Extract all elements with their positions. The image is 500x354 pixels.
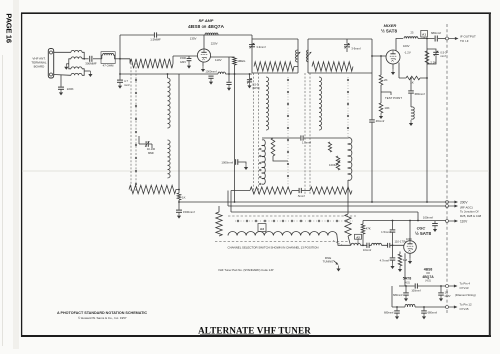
wire V3 cathode right (399, 63, 427, 79)
svg-text:100mmf: 100mmf (423, 216, 433, 220)
wire plate to cap (418, 38, 434, 40)
wire V1 right (211, 57, 235, 74)
label 5AT8 fil (403, 277, 412, 285)
terminal RF AGC (446, 205, 459, 208)
resistor R4 100K (336, 156, 340, 170)
wire mixer B+ drop (426, 39, 428, 203)
wire R1 down (234, 65, 236, 74)
svg-text:TUNING: TUNING (323, 260, 334, 264)
wire cap to feedthru (438, 38, 446, 40)
alignment point A2 box (355, 234, 362, 245)
tube V2 oscillator (404, 241, 417, 254)
wire V3 plate riser (396, 39, 403, 51)
svg-text:4.7mmf: 4.7mmf (380, 258, 390, 262)
switch wafer lines S2 (254, 73, 259, 195)
capacitor C17 100mmf (432, 221, 438, 226)
node screen bus (234, 201, 236, 203)
svg-text:100mmf: 100mmf (411, 288, 421, 292)
svg-text:To Pin 4: To Pin 4 (460, 281, 471, 285)
ground C17 (433, 226, 437, 232)
coil L21 cathode choke (411, 107, 414, 119)
node c23 (405, 285, 407, 287)
svg-text:680mmf: 680mmf (428, 311, 438, 315)
svg-text:Of V13: Of V13 (460, 286, 469, 290)
svg-text:mmf: mmf (124, 83, 130, 87)
capacitor C20 680mmf bypass (408, 78, 414, 107)
svg-text:TO I-F: TO I-F (460, 39, 469, 43)
resistor R3 osc trim (328, 142, 331, 152)
wire balun right top (82, 52, 84, 59)
svg-text:220K: 220K (67, 87, 74, 91)
tube V3 mixer (386, 50, 400, 64)
svg-text:-1.2V: -1.2V (404, 50, 411, 54)
frame right border (489, 13, 491, 337)
capacitor C27 series (388, 243, 390, 248)
coil L2 47 OHM box (101, 52, 115, 64)
svg-text:GMV: GMV (445, 294, 451, 298)
capacitor C25 680mmf fil2 (394, 307, 400, 313)
wire ant shunt drop (60, 75, 62, 87)
wire section3 box (308, 39, 372, 73)
node bus crossings (371, 201, 428, 221)
capacitor C4b rail bypass (226, 74, 231, 85)
node mixer out (426, 38, 428, 40)
ground C24 (439, 295, 443, 301)
wire balun mid stub (66, 63, 69, 65)
switch contact line S2b (287, 77, 289, 186)
coil L6 strip winding upper (168, 78, 171, 128)
ground C16 (390, 263, 394, 269)
node c20 (410, 77, 412, 79)
label VHF ANT TERMINAL BOARD (31, 57, 47, 69)
wire ant top (54, 51, 71, 53)
capacitor C10 1.5mmf (301, 135, 303, 140)
wire 110V bus (363, 220, 446, 222)
svg-text:10-160: 10-160 (147, 147, 156, 151)
resistor R1 1MEG (229, 57, 236, 65)
alignment point A1 box (421, 30, 428, 38)
resistor R9 2.2K (425, 51, 429, 64)
balun coil L1d (71, 73, 82, 75)
svg-text:1.5MMF: 1.5MMF (150, 38, 161, 42)
wire V1 plate riser (203, 35, 205, 49)
svg-text:47K: 47K (366, 227, 371, 231)
svg-text:10mmf: 10mmf (363, 248, 371, 252)
coil L13 strip winding (319, 77, 322, 130)
svg-text:OSC: OSC (417, 226, 426, 231)
wire top line (120, 34, 252, 36)
svg-text:½ 5AT8: ½ 5AT8 (415, 230, 431, 236)
ground C13 (244, 164, 248, 170)
capacitor C26 680mmf fil3 (421, 307, 427, 313)
wire section2 box (252, 35, 298, 73)
svg-text:GMV: GMV (180, 60, 186, 64)
ground C23 (404, 295, 408, 301)
page edge line (2, 55, 4, 346)
label 4BS8 or 4BQ7A fil (422, 267, 434, 282)
frame bottom border (21, 335, 491, 337)
ground C12 (177, 213, 181, 219)
svg-text:1MEG: 1MEG (237, 59, 246, 63)
wire input left vertical (119, 35, 121, 74)
svg-text:3-9mmf: 3-9mmf (351, 46, 360, 50)
capacitor C11 5mmf (292, 188, 310, 193)
wire AGC bus (228, 191, 446, 207)
coil L18 osc grid a (351, 243, 361, 245)
node osc grid (392, 244, 394, 246)
terminal IF output (446, 37, 459, 40)
coil L5 antenna zigzag (120, 59, 173, 69)
label 0.5-3 mmf c19 (440, 51, 447, 59)
wire V2 plate riser (409, 221, 411, 241)
wire bottom rail (120, 73, 252, 75)
svg-text:½ 5AT8: ½ 5AT8 (381, 28, 397, 34)
switch contact row (235, 220, 353, 222)
balun coil L1b (71, 57, 82, 59)
wire filament row1 (399, 285, 446, 287)
svg-text:680mmf: 680mmf (393, 293, 403, 297)
node L6 rail (167, 73, 169, 75)
svg-text:4BQ7A: 4BQ7A (422, 275, 434, 279)
svg-text:ALTERNATE VHF TUNER: ALTERNATE VHF TUNER (198, 325, 311, 335)
svg-text:220V: 220V (211, 42, 218, 46)
coil L14 osc winding (348, 138, 352, 181)
capacitor C2 220K (58, 87, 64, 89)
label RF AGC lines (460, 205, 481, 217)
wire L2 out (115, 58, 120, 60)
wire L5 to grid (172, 56, 174, 64)
node rail-249 (249, 73, 251, 75)
ground fine tuning (336, 266, 340, 272)
coil L3 plate choke (205, 33, 218, 35)
capacitor C3 1.5MMF (154, 32, 156, 37)
svg-text:© Howard W. Sams & Co., Inc. 1: © Howard W. Sams & Co., Inc. 1957 (78, 316, 127, 320)
capacitor C22 100mmf (415, 283, 417, 288)
balun coil L1a (71, 50, 82, 52)
node mixer grid junction (371, 55, 373, 57)
svg-text:PAGE 16: PAGE 16 (4, 13, 13, 42)
svg-text:110V: 110V (215, 58, 222, 62)
svg-text:1500mmf: 1500mmf (183, 210, 195, 214)
svg-text:MMF: MMF (148, 151, 154, 155)
svg-text:[4,5]: [4,5] (426, 280, 431, 283)
node c25 (396, 306, 398, 308)
switch contact line S3b (347, 77, 349, 138)
svg-text:1500: 1500 (180, 56, 186, 60)
svg-text:0.5-3: 0.5-3 (440, 51, 447, 55)
svg-text:RF AMP: RF AMP (199, 18, 214, 23)
wire V3 cathode stub (392, 64, 394, 69)
coil L2 winding (103, 53, 114, 55)
capacitor C13 1000mmf bypass (236, 159, 246, 165)
resistor R2 8.2K (271, 138, 288, 161)
ground V2 (408, 258, 412, 264)
wire filament row2 (392, 306, 446, 308)
svg-text:1000mmf: 1000mmf (205, 70, 216, 74)
label IF OUTPUT (460, 35, 476, 44)
frame left border (21, 13, 23, 337)
node rail-229 (228, 73, 230, 75)
svg-text:IF OUTPUT: IF OUTPUT (460, 35, 476, 39)
wire 200V bus (179, 201, 446, 203)
ground C26 (422, 313, 426, 319)
capacitor C19 0.5-3 trimmer (427, 49, 439, 64)
svg-text:1000mmf: 1000mmf (221, 160, 233, 164)
terminal fil row1 (446, 285, 458, 288)
capacitor C9 3-9mmf trimmer (344, 39, 350, 52)
node input junction (119, 58, 121, 60)
svg-text:TEST POINT: TEST POINT (385, 96, 402, 100)
resistor R5 1K (177, 74, 181, 202)
node r10 grid (380, 55, 382, 57)
node row 47K (362, 244, 364, 246)
capacitor C6 4.7mmf (117, 74, 123, 82)
svg-text:A PHOTOFACT STANDARD NOTATION: A PHOTOFACT STANDARD NOTATION SCHEMATIC (57, 311, 147, 315)
capacitor C21 .36mmf injection (369, 56, 375, 202)
switch box top dashed (228, 215, 356, 217)
ground V3 (391, 69, 395, 75)
wire osc plate bus (231, 191, 418, 221)
svg-text:A2: A2 (356, 235, 360, 239)
coil L16 osc zigzag B (310, 187, 352, 194)
ground V1 cathode (201, 66, 205, 72)
coil L10b tapped osc coil (260, 140, 266, 185)
capacitor C4 1000MMF (208, 76, 213, 78)
coil L10 strip winding (266, 77, 269, 130)
label To Pin 4 Of V13 (460, 281, 471, 289)
wire test point tap (381, 92, 391, 95)
svg-text:R25, R28 & C48: R25, R28 & C48 (460, 214, 481, 218)
capacitor C4a grid bypass (187, 56, 192, 63)
svg-text:300MMF: 300MMF (85, 61, 97, 65)
svg-text:2.2K: 2.2K (430, 60, 436, 64)
svg-text:Of V15: Of V15 (460, 307, 469, 311)
switch contacts S1 (135, 79, 137, 185)
capacitor C24 GMV (438, 286, 444, 295)
ground C4b (227, 85, 231, 91)
shield dashed boundary (446, 24, 448, 315)
tube V1 RF amplifier (197, 49, 210, 62)
ground C2 (59, 89, 63, 95)
coil L4 rail choke (218, 72, 226, 74)
resistor R12 1K (406, 76, 420, 80)
coil L5b converter zigzag (129, 185, 179, 193)
svg-text:680mmf: 680mmf (415, 92, 425, 96)
ground C5 (247, 82, 251, 88)
label To Pin 12 Of V15 (460, 302, 472, 310)
wire L2 internal (101, 55, 115, 59)
ground L21 (409, 120, 413, 126)
label FINE TUNING (323, 256, 334, 264)
svg-text:1.5mmf: 1.5mmf (302, 140, 311, 144)
capacitor C16 4.7mmf (390, 245, 396, 263)
capacitor C15 1.5mmf feedback (390, 221, 396, 246)
wire osc tank top (262, 137, 348, 139)
svg-text:100V: 100V (403, 44, 410, 48)
svg-text:4BS8 OR 4BQ7A: 4BS8 OR 4BQ7A (188, 24, 225, 30)
node c26 (423, 306, 425, 308)
svg-text:5AT8: 5AT8 (403, 277, 412, 281)
ground C6 (118, 83, 122, 89)
page margin shade (13, 0, 19, 349)
resistor R8 1M (398, 252, 402, 267)
coil L8 plate zigzag (254, 62, 298, 71)
label 10-160 MMF (147, 147, 156, 155)
balun coil L1c (71, 67, 82, 69)
node rail-input (119, 73, 121, 75)
label 0.5-3 NPO (252, 82, 259, 89)
label 1M GMV (445, 291, 451, 298)
wire balun left bracket (69, 59, 71, 69)
trimmer fine tuning C7 (139, 141, 152, 147)
ground R11 (379, 113, 383, 119)
terminal 200V (446, 201, 459, 204)
label photofact note (57, 311, 147, 320)
wire screen B+ drop (234, 74, 236, 202)
capacitor C5 0.5-3 trimmer (247, 74, 252, 84)
capacitor C23 680mmf fil (403, 286, 409, 295)
capacitor C8 3-9mmf trimmer (249, 43, 255, 49)
wire V2 cathode (409, 253, 411, 258)
switch box bottom dashed (215, 240, 348, 242)
wire balun gnd stub (84, 70, 90, 72)
svg-text:.5mmf: .5mmf (297, 194, 305, 198)
terminal fil row2 (446, 306, 458, 309)
wire V1 grid (173, 55, 197, 57)
coil L20 mixer plate (404, 37, 418, 39)
coil L15 osc zigzag A (250, 187, 292, 194)
svg-text:110V: 110V (460, 219, 468, 223)
coil L9 coupling out (295, 50, 300, 62)
coil L19 osc grid b (372, 243, 382, 245)
resistor R6 osc series (216, 206, 222, 236)
terminal board TB1 (48, 49, 53, 79)
svg-text:135V: 135V (190, 37, 197, 41)
svg-text:To Pin 12: To Pin 12 (460, 302, 472, 306)
node r5 bus (178, 201, 180, 203)
node balun out (83, 58, 85, 60)
wire balun right bottom (82, 69, 84, 76)
capacitor C18 680mmf (435, 36, 437, 42)
svg-text:680mmf: 680mmf (384, 311, 394, 315)
wire zigA left (231, 190, 250, 192)
switch wafer lines S1 (131, 63, 136, 192)
coil L22 filament choke (405, 304, 415, 307)
svg-text:47 OHM: 47 OHM (103, 64, 114, 68)
coil L7 strip winding lower (168, 140, 171, 178)
svg-text:MIXER: MIXER (384, 23, 397, 28)
svg-text:(Filament String): (Filament String) (455, 293, 476, 297)
wire osc grid row (361, 244, 405, 246)
label 4.7 mmf (124, 79, 130, 87)
resistor R11 10K (379, 103, 383, 113)
wire mixer grid (372, 55, 386, 57)
wire trimmer drop (139, 136, 152, 148)
ground C4a (187, 63, 191, 69)
wire balun out (82, 58, 89, 60)
wire filament link (391, 286, 393, 307)
coil L11 coupling in (306, 50, 311, 62)
frame top border (21, 12, 491, 14)
wire fine tuning arrow (334, 261, 339, 265)
node rail-R1 (234, 73, 236, 75)
resistor R10 2K (379, 56, 383, 103)
ground C25 (395, 313, 399, 319)
svg-text:10K: 10K (384, 106, 389, 110)
svg-text:mmf: mmf (440, 54, 445, 58)
svg-text:VHF Tuner Part No. (STANDARD): VHF Tuner Part No. (STANDARD) Code 1JP (218, 268, 274, 272)
fold line (22, 170, 489, 172)
wire heater riser (404, 253, 406, 286)
wire ant bottom (54, 74, 71, 77)
capacitor C1 300MMF (90, 56, 92, 62)
wire L6 top (167, 74, 169, 78)
capacitor C12 1500mmf (176, 202, 182, 212)
coil L17 osc strip (228, 232, 351, 246)
svg-text:1K: 1K (182, 195, 186, 199)
svg-text:A3: A3 (260, 227, 264, 231)
ground R8 (398, 266, 402, 272)
svg-text:100V: 100V (406, 237, 412, 241)
svg-text:4BS8: 4BS8 (424, 267, 433, 271)
svg-text:2K: 2K (384, 78, 388, 82)
title ALTERNATE VHF TUNER (198, 325, 311, 335)
node r12 bus (426, 77, 428, 79)
wire dashed link strip (333, 241, 343, 246)
svg-text:680mmf: 680mmf (431, 31, 441, 35)
svg-text:BOARD: BOARD (34, 65, 46, 69)
node L5b junction (178, 189, 180, 191)
svg-text:.36mmf: .36mmf (375, 119, 385, 123)
resistor R13 osc strip (345, 214, 351, 245)
switch wafer lines S3 (305, 73, 310, 195)
capacitor C14 10mmf (367, 243, 369, 248)
svg-text:100K: 100K (329, 163, 336, 167)
resistor R7 47K (361, 221, 365, 246)
alignment point A3 box (258, 224, 266, 232)
coil L12 grid zigzag (312, 62, 353, 71)
svg-text:CHANNEL SELECTOR SWITCH SHOWN: CHANNEL SELECTOR SWITCH SHOWN IN CHANNEL… (228, 245, 319, 249)
ground C4 (209, 79, 213, 85)
node c24 (440, 285, 442, 287)
ground balun (64, 64, 68, 70)
wire V1 cathode stub (202, 62, 204, 66)
wire L14 down (347, 180, 349, 214)
svg-text:3-9mmf: 3-9mmf (256, 45, 265, 49)
terminal 110V (446, 220, 459, 223)
label 1500 GMV (180, 56, 187, 64)
svg-text:A1: A1 (422, 33, 426, 37)
wire C1 to L2 (93, 58, 101, 60)
svg-text:1.5mmf: 1.5mmf (381, 230, 391, 234)
ground balun right (88, 71, 92, 77)
svg-text:200V: 200V (460, 200, 468, 204)
